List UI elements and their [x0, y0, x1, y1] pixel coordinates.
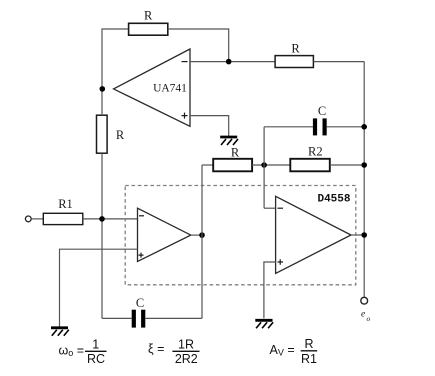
- svg-text:R2: R2: [308, 145, 323, 159]
- svg-text:R1: R1: [58, 197, 73, 211]
- wire top feedback loop left segment: [102, 29, 129, 89]
- op-amp U2 (first half D4558): [138, 208, 191, 261]
- wire middle rail from R to bottom C: [201, 165, 203, 318]
- svg-text:ξ =: ξ =: [148, 342, 164, 356]
- wire bottom C left lead: [102, 317, 132, 319]
- wire U2 output: [191, 234, 202, 236]
- wire input to R1: [31, 218, 43, 220]
- resistor R (middle): [213, 146, 252, 172]
- resistor R (left vertical): [97, 115, 125, 153]
- wire UA741 noninverting input to ground: [190, 116, 229, 137]
- svg-text:UA741: UA741: [153, 82, 187, 94]
- node junction at UA741 minus: [226, 59, 232, 65]
- dashed box D4558 package: [125, 186, 356, 285]
- svg-text:R1: R1: [301, 352, 317, 366]
- wire U3 inverting input: [264, 207, 276, 209]
- formula xi = 1R/2R2: [148, 337, 200, 366]
- svg-text:C: C: [136, 296, 144, 310]
- node junction U2 output: [199, 232, 205, 238]
- wire R1 to op-amp U2 minus: [83, 218, 138, 220]
- op-amp U1 UA741: [114, 49, 191, 126]
- wire left rail: [101, 89, 103, 319]
- ground bottom middle: [255, 320, 273, 328]
- svg-text:1R: 1R: [178, 337, 194, 351]
- pin plus U2: [139, 253, 144, 258]
- svg-text:R: R: [116, 128, 125, 142]
- svg-text:R: R: [231, 146, 240, 160]
- output terminal: [361, 297, 368, 304]
- svg-text:D4558: D4558: [317, 194, 350, 206]
- svg-text:C: C: [318, 104, 326, 118]
- formula Av = R/R1: [270, 337, 318, 366]
- resistor R2: [290, 145, 330, 172]
- wire UA741 inverting input: [190, 61, 275, 63]
- wire R2 right lead: [330, 164, 364, 166]
- resistor R (top feedback): [129, 9, 168, 36]
- pin plus U3: [278, 259, 284, 265]
- pin minus U2: [139, 215, 144, 217]
- svg-text:2R2: 2R2: [175, 352, 198, 366]
- node junction R2 right rail: [361, 162, 367, 168]
- wire top feedback loop right segment: [168, 29, 229, 62]
- formula omega0 = 1/RC: [59, 337, 107, 366]
- pin plus UA741: [182, 113, 188, 119]
- svg-text:1: 1: [92, 337, 99, 351]
- input terminal: [25, 216, 31, 222]
- svg-text:R: R: [144, 9, 153, 23]
- capacitor C (top right): [313, 104, 327, 135]
- svg-text:R: R: [291, 41, 300, 55]
- pin minus U3: [278, 207, 284, 209]
- wire right rail: [363, 62, 365, 298]
- pin minus UA741: [182, 61, 188, 63]
- wire C left lead: [264, 126, 313, 128]
- svg-text:e: e: [361, 310, 365, 320]
- resistor R (top right): [275, 41, 313, 67]
- wire middle R left lead: [202, 164, 213, 166]
- wire U3 noninverting input to ground: [264, 262, 276, 318]
- resistor R1: [43, 197, 83, 225]
- wire from top right R to right rail: [313, 61, 364, 63]
- wire middle R right lead: [252, 164, 290, 166]
- op-amp U3 (second half D4558): [276, 196, 351, 273]
- node junction U3 output right rail: [361, 232, 367, 238]
- capacitor C (bottom): [132, 296, 146, 328]
- ground bottom left: [51, 328, 69, 336]
- wire C branch vertical: [263, 127, 265, 208]
- wire U3 output: [351, 234, 364, 236]
- ground under UA741 plus input: [220, 137, 238, 145]
- wire bottom C right lead: [145, 317, 202, 319]
- node junction R1 and left rail: [99, 216, 105, 222]
- node junction C right rail: [361, 124, 367, 130]
- svg-text:RC: RC: [87, 352, 105, 366]
- svg-text:R: R: [304, 337, 313, 351]
- label output e o: [361, 310, 371, 324]
- wire U2 noninverting input: [60, 249, 138, 326]
- node junction at UA741 output: [100, 86, 106, 92]
- node junction middle R / R2 / C / U3 minus: [261, 162, 267, 168]
- wire C right lead: [327, 126, 365, 128]
- svg-text:o: o: [367, 314, 371, 323]
